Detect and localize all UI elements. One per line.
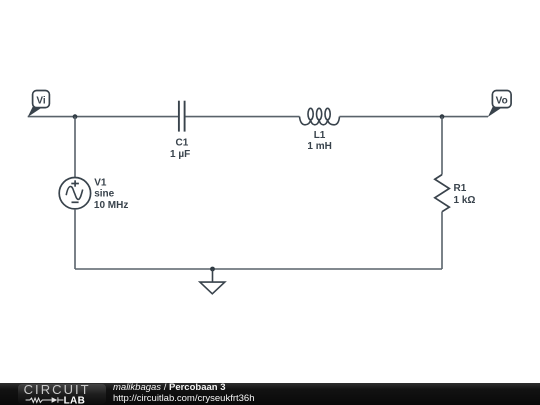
logo diode (52, 397, 64, 402)
credit lines (113, 382, 255, 404)
svg-text:R1: R1 (454, 183, 467, 194)
ground (200, 269, 225, 294)
net flag Vo (488, 91, 511, 118)
capacitor C1 (179, 101, 185, 132)
resistor R1 (435, 175, 450, 212)
svg-text:sine: sine (94, 189, 114, 200)
net flag Vi (28, 91, 50, 118)
svg-text:LAB: LAB (64, 395, 86, 405)
wire: bottom segment (75, 268, 442, 270)
svg-text:1 µF: 1 µF (170, 149, 190, 160)
svg-text:C1: C1 (176, 137, 189, 148)
wire: left vertical upper (74, 117, 76, 178)
junction node A (Vi column) (73, 114, 78, 119)
inductor L1 (300, 108, 340, 125)
wire: top segment Vi node to C1 (28, 116, 178, 118)
svg-text:1 kΩ: 1 kΩ (454, 195, 476, 206)
footer bar (0, 383, 540, 405)
svg-text:V1: V1 (94, 177, 107, 188)
wire: right vertical upper (441, 117, 443, 175)
logo resistor squiggle (26, 398, 52, 402)
wire: L1 to Vo node (340, 116, 489, 118)
wire: C1 to L1 (186, 116, 300, 118)
svg-text:10 MHz: 10 MHz (94, 200, 128, 211)
svg-text:Vo: Vo (496, 96, 508, 107)
voltage source V1 (59, 178, 90, 209)
wire: right vertical lower (441, 212, 443, 269)
svg-text:Vi: Vi (36, 96, 45, 107)
junction node B (Vo column) (440, 114, 445, 119)
wire: left vertical lower (74, 209, 76, 269)
CircuitLab logo (0, 380, 110, 405)
logo badge background (18, 384, 106, 404)
junction node ground (210, 267, 215, 272)
svg-text:1 mH: 1 mH (307, 141, 331, 152)
svg-text:L1: L1 (314, 130, 326, 141)
